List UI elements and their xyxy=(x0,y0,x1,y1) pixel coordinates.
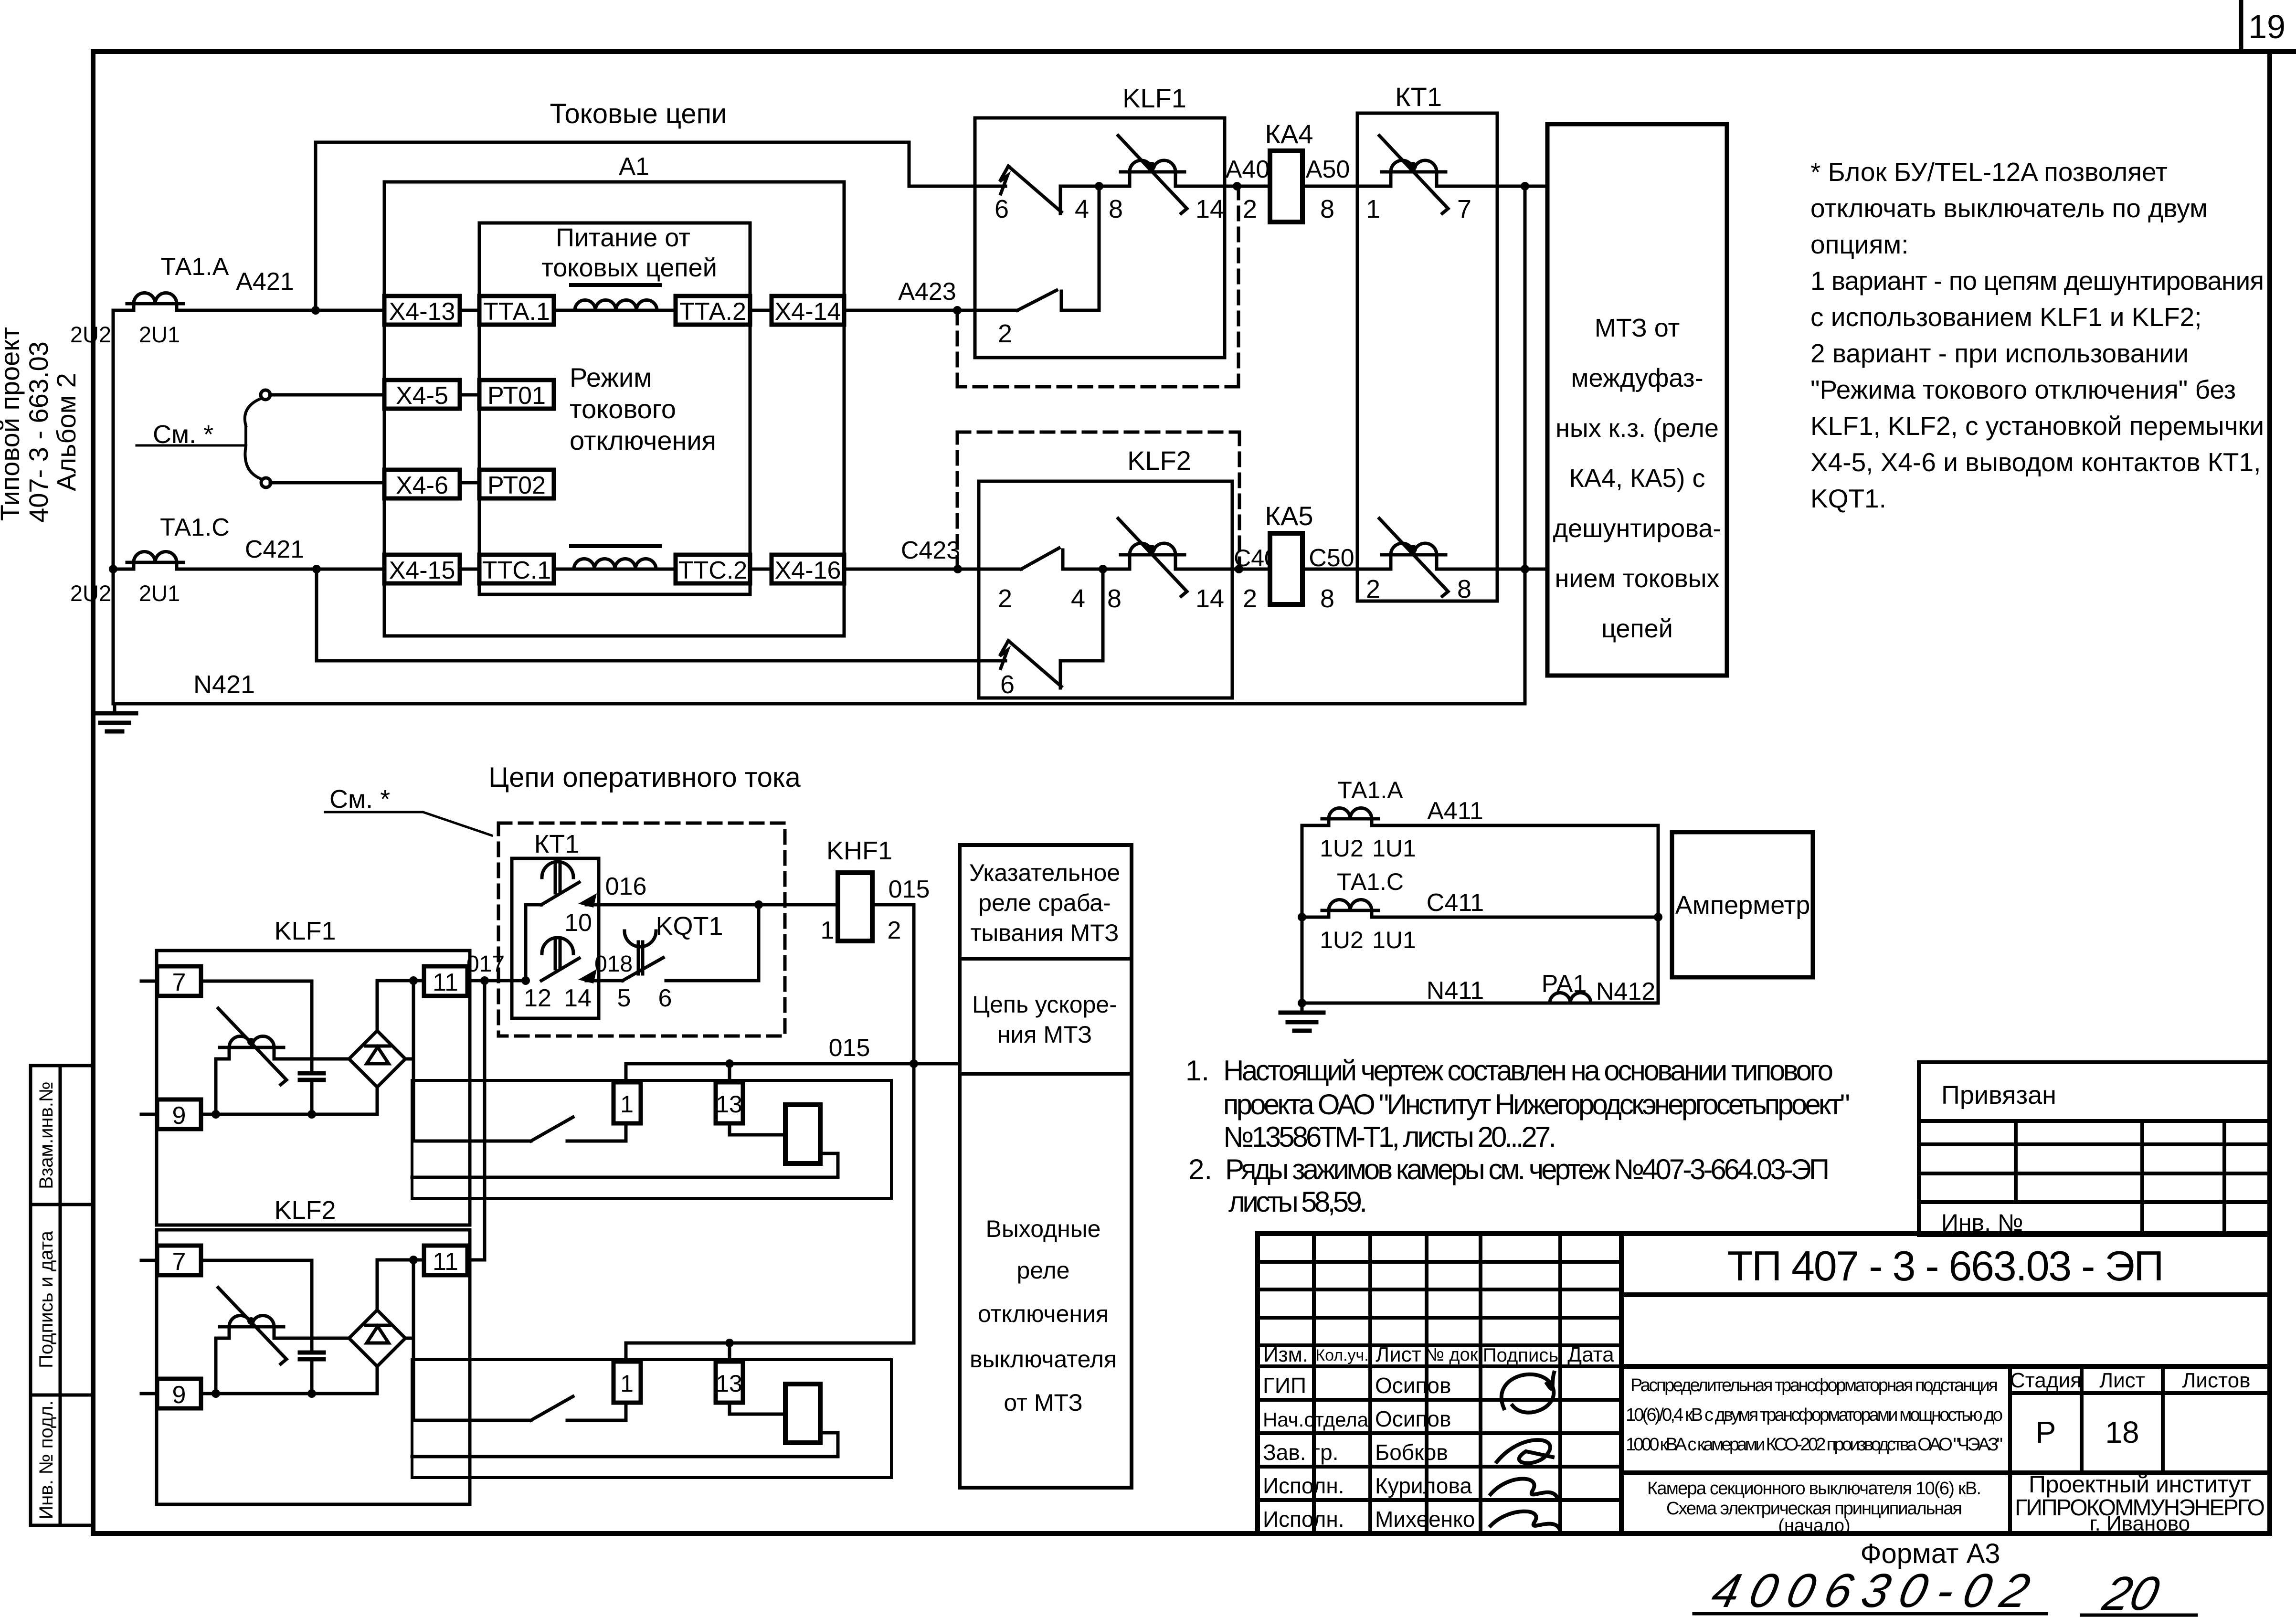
svg-text:KHF1: KHF1 xyxy=(826,836,892,865)
svg-text:№13586ТМ-Т1, листы 20...27.: №13586ТМ-Т1, листы 20...27. xyxy=(1223,1121,1556,1153)
svg-text:1U1: 1U1 xyxy=(1372,835,1416,862)
wire 018 xyxy=(586,979,623,983)
signature scribble Ispoln1 xyxy=(1491,1479,1557,1498)
svg-text:19: 19 xyxy=(2248,8,2285,45)
left margin stamp: Подпись и дата box xyxy=(31,1205,93,1395)
wire node8 down to contact 2 xyxy=(1098,186,1101,310)
terminal box 11 xyxy=(424,966,467,996)
svg-text:Взам.инв.№: Взам.инв.№ xyxy=(36,1081,57,1189)
ammeter coil PA1 xyxy=(1550,993,1591,1004)
ammeter box xyxy=(1672,832,1813,977)
svg-text:Выходные: Выходные xyxy=(986,1215,1101,1242)
svg-text:ТА1.С: ТА1.С xyxy=(1337,868,1404,895)
wire 015 row 2 xyxy=(626,1343,914,1362)
node N411 at left riser xyxy=(1298,999,1306,1007)
relay KLF1 box xyxy=(975,118,1225,358)
svg-text:2: 2 xyxy=(888,917,901,944)
CT TA1.A winding (metering) xyxy=(1322,808,1378,829)
wire X4-6 to PT02 xyxy=(270,481,479,485)
svg-text:Токовые цепи: Токовые цепи xyxy=(550,98,727,129)
wire: bypass from A421 up and over to KLF1 pin 6 xyxy=(316,142,1005,310)
capacitor branch lower lead xyxy=(310,1080,314,1114)
svg-text:Амперметр: Амперметр xyxy=(1675,891,1810,919)
wire C421 phase C row xyxy=(113,568,1021,571)
svg-text:Лист: Лист xyxy=(1375,1343,1421,1366)
diode triangle xyxy=(367,1047,389,1064)
svg-text:г. Иваново: г. Иваново xyxy=(2090,1512,2190,1535)
trip coil return wire (row 2) xyxy=(412,1433,838,1457)
svg-text:13: 13 xyxy=(716,1091,742,1118)
wire N411/N412 xyxy=(1302,1002,1658,1005)
svg-text:Указательное: Указательное xyxy=(969,859,1120,886)
svg-text:* Блок БУ/TEL-12A позволяет: * Блок БУ/TEL-12A позволяет xyxy=(1810,157,2168,187)
jumper removable link arcs xyxy=(245,398,262,479)
node on 016 xyxy=(754,900,763,909)
svg-text:Зав. гр.: Зав. гр. xyxy=(1263,1440,1339,1465)
wire KA4 to KT1 xyxy=(1302,185,1547,188)
signature scribble Zav.gr xyxy=(1497,1440,1553,1463)
jumper terminal circle lower xyxy=(261,478,271,487)
node junction C421 / drop to KLF2 pin 6 xyxy=(312,565,321,573)
svg-text:А421: А421 xyxy=(236,268,294,296)
svg-text:Подпись и дата: Подпись и дата xyxy=(36,1230,57,1368)
svg-text:А1: А1 xyxy=(619,153,649,180)
diode bridge diamond xyxy=(349,1031,405,1087)
svg-text:407- 3 - 663.03: 407- 3 - 663.03 xyxy=(23,341,53,523)
svg-text:Х4-15: Х4-15 xyxy=(389,557,455,584)
svg-text:8: 8 xyxy=(1320,584,1334,613)
node 017 drop xyxy=(480,976,489,985)
function table column xyxy=(960,845,1132,1488)
KT1.2 time contact blade xyxy=(541,958,579,981)
wire A421 phase A row xyxy=(113,309,1017,312)
svg-text:Р: Р xyxy=(2036,1415,2056,1449)
svg-text:KQT1: KQT1 xyxy=(656,912,723,941)
KLF1 contact 6-4 blade xyxy=(1008,166,1061,212)
overline over TTC winding xyxy=(571,544,660,548)
svg-text:ТП 407 - 3 - 663.03 - ЭП: ТП 407 - 3 - 663.03 - ЭП xyxy=(1727,1242,2164,1289)
node at output drop xyxy=(409,976,418,985)
underline over TTA winding xyxy=(571,283,660,287)
numbered notes (middle right) xyxy=(1185,1055,1850,1218)
wire node8 down to contact 6 row xyxy=(1101,569,1105,661)
svg-text:Х4-13: Х4-13 xyxy=(389,298,455,326)
svg-text:8: 8 xyxy=(1457,575,1471,603)
wire 015 riser from KHF1 down to row 2 xyxy=(912,905,916,1343)
svg-text:1: 1 xyxy=(1366,195,1380,223)
svg-text:1U1: 1U1 xyxy=(1372,927,1416,953)
inner block (режим токового отключения) outline xyxy=(479,223,750,594)
relay KHF1 coil box xyxy=(838,873,872,941)
svg-text:12: 12 xyxy=(524,984,551,1012)
svg-text:7: 7 xyxy=(1457,195,1471,223)
svg-text:6: 6 xyxy=(995,195,1009,223)
svg-text:Настоящий чертеж составлен на: Настоящий чертеж составлен на основании … xyxy=(1223,1055,1833,1087)
terminal box TTC.2 xyxy=(676,555,750,584)
svg-text:14: 14 xyxy=(1196,195,1224,223)
svg-text:ТТА.2: ТТА.2 xyxy=(679,298,746,326)
svg-text:Нач.отдела: Нач.отдела xyxy=(1263,1408,1369,1431)
svg-text:Питание от: Питание от xyxy=(556,223,690,252)
node 8 of KLF2 xyxy=(1099,565,1107,573)
svg-text:Камера секционного выключателя: Камера секционного выключателя 10(6) кВ. xyxy=(1647,1479,1981,1499)
svg-text:ТА1.С: ТА1.С xyxy=(160,514,230,541)
CT TA1.C winding xyxy=(127,552,183,573)
wire C411 xyxy=(1302,916,1658,919)
output drop wire xyxy=(412,981,415,1141)
svg-text:отключать выключатель по двум: отключать выключатель по двум xyxy=(1810,193,2208,223)
svg-text:Привязан: Привязан xyxy=(1941,1081,2056,1110)
relay KA4 coil box xyxy=(1270,151,1302,222)
terminal stub 7 xyxy=(141,980,157,983)
svg-text:Исполн.: Исполн. xyxy=(1263,1507,1344,1532)
svg-text:А423: А423 xyxy=(898,278,956,306)
svg-text:Инв. № подл.: Инв. № подл. xyxy=(36,1400,57,1519)
wire 13 to trip coil (row 2) xyxy=(730,1403,785,1414)
output contact fixed side xyxy=(567,1123,626,1141)
svg-text:См. *: См. * xyxy=(153,420,213,449)
wire row 9 xyxy=(201,1113,377,1116)
KLF1 contact 2 fixed side xyxy=(1061,291,1099,310)
terminal box PT01 xyxy=(479,380,554,410)
terminal box X4-14 xyxy=(772,296,844,326)
svg-text:Типовой проект: Типовой проект xyxy=(0,327,25,521)
coil branch riser xyxy=(216,1047,229,1114)
svg-text:Проектный институт: Проектный институт xyxy=(2029,1471,2251,1498)
terminal box TTC.1 xyxy=(479,555,554,584)
svg-text:реле: реле xyxy=(1017,1257,1070,1284)
svg-text:Х4-5: Х4-5 xyxy=(396,382,448,410)
node junction A421 / bypass riser xyxy=(311,306,320,315)
svg-text:ТА1.А: ТА1.А xyxy=(161,253,229,281)
svg-text:Х4-6: Х4-6 xyxy=(396,472,448,499)
svg-text:N411: N411 xyxy=(1427,977,1484,1004)
capacitor branch upper lead xyxy=(310,981,314,1073)
stub 015 to box 13 xyxy=(728,1343,731,1362)
KT1.2 time-delay head xyxy=(542,938,573,969)
KT1.1 fixed stub xyxy=(526,903,541,907)
trip coil return wire xyxy=(412,1153,838,1177)
node 8 of KLF1 xyxy=(1095,182,1103,190)
terminal box TTA.2 xyxy=(676,296,750,326)
privyazan table xyxy=(1919,1062,2270,1235)
terminal box X4-13 xyxy=(384,296,460,326)
wire 017 drop from KLF1-11 to KLF2-11 xyxy=(467,981,485,1260)
relay KT1 box xyxy=(1357,113,1497,601)
svg-text:"Режима токового отключения" б: "Режима токового отключения" без xyxy=(1810,375,2236,404)
wire 016 xyxy=(586,903,838,907)
ground at N421 xyxy=(93,704,136,731)
svg-text:8: 8 xyxy=(1107,584,1122,613)
terminal box 9 xyxy=(157,1099,201,1129)
reactor winding TTC on phase C xyxy=(574,559,656,570)
svg-text:цепей: цепей xyxy=(1601,614,1673,643)
node at pin 12 xyxy=(521,976,530,985)
svg-text:ТА1.А: ТА1.А xyxy=(1337,777,1403,803)
capacitor plates xyxy=(300,1073,324,1080)
svg-text:ТТА.1: ТТА.1 xyxy=(483,298,550,326)
KLF2 contact 2 blade xyxy=(1021,548,1059,569)
svg-text:KQT1.: KQT1. xyxy=(1810,484,1886,513)
svg-text:листы 58,59.: листы 58,59. xyxy=(1228,1186,1367,1218)
KT1.2 moving arrow xyxy=(578,969,597,983)
svg-text:междуфаз-: междуфаз- xyxy=(1571,364,1703,392)
ground at metering circuit xyxy=(1280,1003,1323,1031)
jumper terminal circle upper xyxy=(261,390,270,400)
KQT1 double bar xyxy=(638,942,643,974)
bridge right stub xyxy=(405,1057,413,1061)
KT1.1 time contact blade xyxy=(541,882,579,905)
node at coil branch xyxy=(212,1110,220,1119)
svg-text:ТТС.1: ТТС.1 xyxy=(482,557,551,584)
terminal box X4-15 xyxy=(384,555,460,584)
terminal box X4-6 xyxy=(384,470,460,499)
svg-text:6: 6 xyxy=(658,984,672,1012)
svg-text:А50: А50 xyxy=(1306,156,1350,183)
KLF1 current winding xyxy=(1118,136,1187,213)
svg-text:2: 2 xyxy=(1366,575,1380,603)
wire A411 xyxy=(1302,824,1658,827)
frame top line extension under sheet box xyxy=(2270,49,2296,54)
leader line to See note xyxy=(137,444,245,447)
node 015/riser KHF1 xyxy=(910,1059,918,1068)
KLF1 contact 4 terminal tick xyxy=(1059,186,1062,213)
relay block KLF2 (lower, rectifier unit) xyxy=(141,1230,626,1504)
node at phase C crossing xyxy=(1521,565,1529,573)
svg-text:токовых цепей: токовых цепей xyxy=(541,254,717,282)
svg-text:(начало): (начало) xyxy=(1778,1516,1850,1536)
diode cathode bar xyxy=(366,1045,390,1048)
svg-text:Цепь ускоре-: Цепь ускоре- xyxy=(972,991,1117,1018)
svg-text:Бобков: Бобков xyxy=(1375,1440,1448,1465)
relay winding chord xyxy=(220,1046,284,1049)
svg-text:13: 13 xyxy=(716,1370,742,1397)
wire bridge to terminal 11 xyxy=(377,979,424,983)
block MT3 description box xyxy=(1547,124,1727,676)
svg-text:тывания МТЗ: тывания МТЗ xyxy=(971,919,1119,946)
node at capacitor branch xyxy=(307,1110,316,1119)
bridge top riser xyxy=(376,981,379,1031)
KLF block outline xyxy=(157,951,470,1225)
svg-text:Листов: Листов xyxy=(2182,1369,2251,1392)
function table divider 2 xyxy=(960,1072,1132,1076)
signature scribble Ispoln2 xyxy=(1491,1511,1559,1529)
svg-text:1U2: 1U2 xyxy=(1320,835,1364,862)
svg-text:РТ02: РТ02 xyxy=(487,472,546,499)
CT TA1.C winding (metering) xyxy=(1322,900,1378,921)
terminal box 7 xyxy=(157,966,201,996)
KT1 upper winding xyxy=(1379,136,1448,213)
stage/sheet labels xyxy=(2010,1369,2265,1535)
svg-text:С411: С411 xyxy=(1427,889,1484,917)
svg-text:2.: 2. xyxy=(1188,1153,1212,1185)
node junction C423 at KLF2 dashed border xyxy=(953,565,962,573)
svg-text:18: 18 xyxy=(2105,1415,2139,1449)
wire riser joining A and C rows to N421 xyxy=(1524,186,1527,704)
svg-text:№ док.: № док. xyxy=(1425,1345,1483,1365)
svg-text:реле сраба-: реле сраба- xyxy=(978,889,1111,916)
node C411 at right riser xyxy=(1654,913,1662,921)
svg-text:Кол.уч.: Кол.уч. xyxy=(1315,1346,1368,1364)
relay KT1 contacts box xyxy=(512,858,599,1018)
wire X4-5 to PT01 xyxy=(270,393,479,397)
svg-text:2U1: 2U1 xyxy=(139,322,180,347)
svg-text:2 вариант - при использовании: 2 вариант - при использовании xyxy=(1810,338,2189,368)
svg-text:2U1: 2U1 xyxy=(139,581,180,606)
svg-text:КА5: КА5 xyxy=(1265,501,1313,531)
ammeter circuit left riser xyxy=(1301,825,1304,1003)
svg-text:Режим: Режим xyxy=(570,362,652,392)
node at phase A return riser xyxy=(1521,182,1529,190)
title block header labels xyxy=(1263,1343,1614,1532)
KLF2 contact 6 terminal tick xyxy=(1059,661,1062,688)
svg-text:Альбом 2: Альбом 2 xyxy=(51,373,81,491)
svg-text:KLF2: KLF2 xyxy=(274,1196,336,1225)
trip relay coil box (row 1) xyxy=(785,1105,820,1163)
svg-text:Ряды зажимов камеры см. чертеж: Ряды зажимов камеры см. чертеж №407-3-66… xyxy=(1225,1153,1830,1185)
wire: left drop from TA1.A common to N421 xyxy=(112,310,115,704)
svg-text:С423: С423 xyxy=(901,537,960,564)
svg-text:1000 кВА с камерами КСО-202 пр: 1000 кВА с камерами КСО-202 производства… xyxy=(1626,1435,2003,1455)
svg-text:015: 015 xyxy=(889,876,930,903)
svg-text:См. *: См. * xyxy=(329,785,390,814)
svg-text:1: 1 xyxy=(620,1091,634,1118)
leader line to KT1 dashed box xyxy=(325,812,492,835)
svg-text:KLF2: KLF2 xyxy=(1127,445,1191,476)
node C40 xyxy=(1235,565,1243,573)
output enclosure KLF2 row xyxy=(412,1360,891,1478)
node C411 at left riser xyxy=(1298,913,1306,921)
output terminal box 13 (row 2) xyxy=(716,1362,743,1403)
svg-text:токового: токового xyxy=(570,394,676,424)
svg-text:КА4: КА4 xyxy=(1265,119,1313,149)
svg-text:ных к.з. (реле: ных к.з. (реле xyxy=(1555,414,1719,443)
wire to output contact xyxy=(413,1140,531,1143)
svg-text:4: 4 xyxy=(1075,195,1089,223)
wire A411 drop to ammeter row xyxy=(1657,825,1660,1003)
node A40 xyxy=(1233,182,1241,190)
note text BU/TEL-12A (top right) xyxy=(1810,157,2264,513)
svg-text:ТТС.2: ТТС.2 xyxy=(678,557,747,584)
svg-text:2U2: 2U2 xyxy=(70,581,111,606)
output enclosure KLF1 row xyxy=(412,1080,891,1198)
svg-text:РА1: РА1 xyxy=(1542,970,1587,998)
CT TA1.A winding xyxy=(127,293,183,314)
terminal box TTA.1 xyxy=(479,296,554,326)
svg-text:Изм.: Изм. xyxy=(1263,1343,1308,1366)
svg-text:Осипов: Осипов xyxy=(1375,1373,1451,1398)
svg-text:А40: А40 xyxy=(1226,156,1270,183)
KT1.1 moving arrow xyxy=(578,893,597,908)
title block grid xyxy=(1258,1234,2270,1533)
KT1 lower winding xyxy=(1379,518,1448,596)
svg-text:от МТЗ: от МТЗ xyxy=(1004,1389,1082,1416)
terminal box PT02 xyxy=(479,470,554,499)
svg-text:017: 017 xyxy=(466,951,505,977)
svg-text:400630-02: 400630-02 xyxy=(1707,1564,2035,1617)
svg-text:Х4-16: Х4-16 xyxy=(775,557,841,584)
svg-text:Х4-5, Х4-6 и выводом контактов: Х4-5, Х4-6 и выводом контактов КТ1, xyxy=(1810,447,2261,477)
terminal stub 9 xyxy=(141,1113,157,1116)
wire from 7 to capacitor branch xyxy=(201,980,312,983)
riser KQT1 to 016 xyxy=(757,905,761,981)
svg-text:проекта ОАО "Институт Нижегоро: проекта ОАО "Институт Нижегородскэнергос… xyxy=(1223,1089,1850,1120)
archive number underline xyxy=(1694,1614,2196,1615)
reactor winding TTA on phase A xyxy=(575,300,657,311)
wire N421 xyxy=(113,702,1525,706)
svg-text:10: 10 xyxy=(564,909,592,937)
wire 017 from box 11 to KT1 pin 12 xyxy=(467,979,526,983)
svg-text:РТ01: РТ01 xyxy=(487,382,546,410)
terminal box X4-5 xyxy=(384,380,460,410)
relay block KLF1 (lower, rectifier unit) xyxy=(141,951,626,1225)
KLF2 contact 6 breaker zigzag xyxy=(1000,641,1008,668)
relay KLF2 box xyxy=(979,481,1232,698)
KLF2 contact 2 fixed side xyxy=(1063,550,1270,569)
left margin stamp: Инв. № подл. box xyxy=(31,1395,93,1525)
output relay contact blade xyxy=(531,1117,573,1141)
svg-text:Подпись: Подпись xyxy=(1483,1345,1558,1366)
svg-text:КТ1: КТ1 xyxy=(1395,82,1442,112)
svg-text:018: 018 xyxy=(594,951,633,977)
svg-text:1: 1 xyxy=(821,917,835,944)
svg-text:КТ1: КТ1 xyxy=(534,830,579,858)
svg-text:Курилова: Курилова xyxy=(1375,1473,1472,1498)
svg-text:Распределительная трансформато: Распределительная трансформаторная подст… xyxy=(1630,1375,1998,1395)
object description text xyxy=(1626,1375,2003,1536)
handwritten archive number xyxy=(1707,1564,2165,1617)
relay KA5 coil box xyxy=(1270,533,1302,604)
svg-text:Михеенко: Михеенко xyxy=(1375,1507,1475,1532)
left margin stamp: Взам.инв.№ box xyxy=(31,1066,93,1205)
svg-text:N421: N421 xyxy=(193,670,255,699)
wire 13 to trip coil xyxy=(730,1123,785,1135)
svg-text:11: 11 xyxy=(433,969,458,996)
svg-text:Лист: Лист xyxy=(2099,1369,2145,1392)
KT1.1 time-delay head xyxy=(542,862,573,893)
svg-text:KLF1: KLF1 xyxy=(274,917,336,945)
KLF2 dashed option boundary xyxy=(957,432,1239,569)
svg-text:2U2: 2U2 xyxy=(70,322,111,347)
function table divider 1 xyxy=(960,957,1132,961)
svg-text:ния МТЗ: ния МТЗ xyxy=(997,1021,1092,1048)
svg-text:016: 016 xyxy=(605,873,647,900)
node 015 over box 13 (row1) xyxy=(725,1059,734,1068)
svg-text:С421: С421 xyxy=(245,536,304,563)
svg-text:Исполн.: Исполн. xyxy=(1263,1473,1344,1498)
svg-text:Осипов: Осипов xyxy=(1375,1406,1451,1431)
svg-text:8: 8 xyxy=(1320,195,1334,223)
KLF1 dashed option boundary xyxy=(957,186,1238,387)
svg-text:нием токовых: нием токовых xyxy=(1555,564,1719,593)
svg-text:Дата: Дата xyxy=(1567,1343,1614,1366)
svg-text:опциям:: опциям: xyxy=(1810,230,1908,259)
svg-text:отключения: отключения xyxy=(570,425,716,455)
svg-text:6: 6 xyxy=(1000,670,1015,699)
bridge bottom riser xyxy=(376,1087,379,1114)
svg-text:14: 14 xyxy=(564,984,592,1012)
svg-text:ГИП: ГИП xyxy=(1263,1373,1306,1398)
svg-text:2: 2 xyxy=(1243,195,1257,223)
svg-text:KLF1: KLF1 xyxy=(1122,83,1186,113)
node junction on C421 at left riser xyxy=(109,565,117,573)
output terminal box 13 xyxy=(716,1082,743,1123)
KLF2 contact 6 blade xyxy=(1008,641,1061,687)
svg-text:7: 7 xyxy=(172,969,186,996)
svg-text:5: 5 xyxy=(617,984,631,1012)
svg-text:015: 015 xyxy=(829,1034,870,1062)
svg-text:4: 4 xyxy=(1071,584,1085,613)
